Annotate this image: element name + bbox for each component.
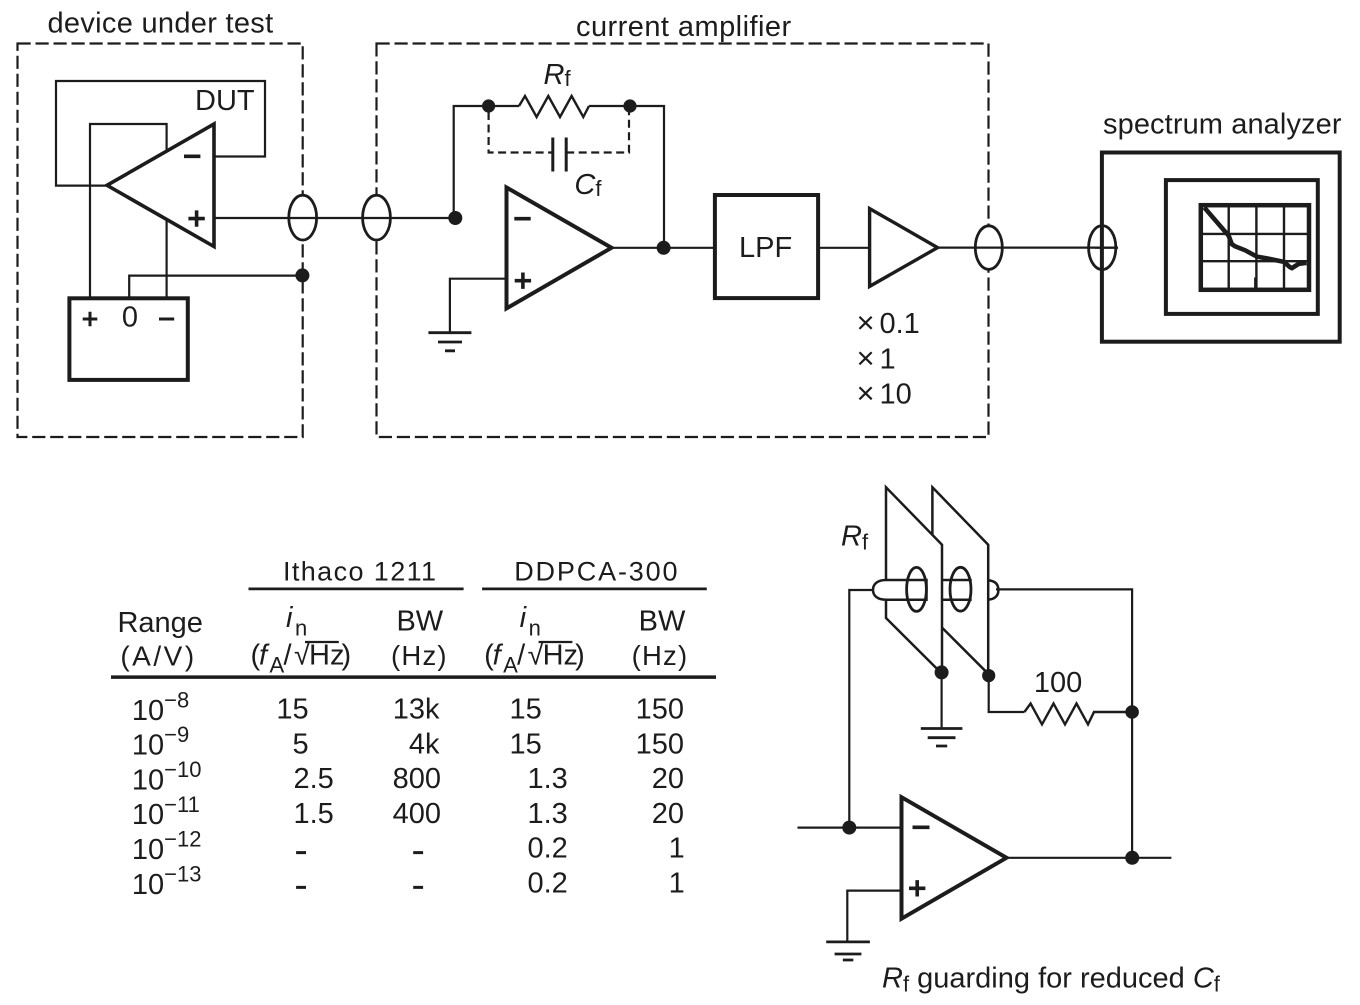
svg-text:DUT: DUT bbox=[195, 85, 255, 117]
node: output dot bbox=[1125, 851, 1139, 865]
noise curve on screen bbox=[1204, 208, 1306, 269]
resistor Rf body left segment bbox=[873, 580, 927, 600]
screen grid verticals bbox=[1229, 205, 1284, 290]
U3 non-inverting input label bbox=[909, 880, 925, 896]
ground symbol (U3 +input) bbox=[826, 942, 870, 960]
wire: plate1 to ground bbox=[940, 672, 942, 727]
dash cells rows 5-6 bbox=[296, 853, 423, 888]
svg-text:4k: 4k bbox=[409, 728, 440, 760]
op-amp U2 (current amplifier) bbox=[507, 188, 612, 309]
DUT enclosure dashed box bbox=[18, 44, 303, 438]
svg-text:×: × bbox=[857, 375, 875, 410]
svg-text:150: 150 bbox=[636, 728, 684, 760]
wire: U2 output to LPF bbox=[612, 247, 715, 249]
screen grid horizontals bbox=[1201, 234, 1309, 261]
svg-text:A: A bbox=[503, 653, 518, 678]
guard hole ellipse (rear plate) bbox=[950, 567, 971, 611]
wire: Rf right lead to output bbox=[996, 589, 1132, 857]
node: inverting input dot bbox=[842, 821, 856, 835]
guard hole ellipse (front plate) bbox=[907, 567, 927, 611]
svg-text:Hz: Hz bbox=[309, 639, 344, 671]
svg-text:/: / bbox=[284, 639, 293, 671]
connector ellipse on current amplifier right edge bbox=[975, 226, 1002, 270]
svg-text:1.3: 1.3 bbox=[527, 798, 567, 830]
wire: non-inverting input to ground bbox=[847, 891, 901, 942]
spectrum analyzer inner box bbox=[1166, 180, 1318, 314]
rule under Ithaco 1211 bbox=[249, 588, 464, 591]
op-amp U1 (DUT, pointing left) bbox=[107, 124, 214, 247]
svg-text:(Hz): (Hz) bbox=[391, 640, 448, 671]
resistor Rf body middle segment bbox=[943, 580, 972, 600]
node: output junction dot bbox=[657, 241, 671, 255]
current amplifier dashed box bbox=[377, 44, 989, 438]
svg-text:): ) bbox=[342, 639, 352, 671]
svg-text:0.2: 0.2 bbox=[527, 868, 567, 900]
table header rule bbox=[111, 675, 716, 679]
svg-text:1.5: 1.5 bbox=[293, 798, 333, 830]
node: resistor/output junction dot bbox=[1125, 705, 1139, 719]
svg-text:15: 15 bbox=[276, 694, 308, 726]
wire: LPF to gain amp bbox=[818, 247, 870, 249]
connector ellipse on spectrum analyzer bbox=[1089, 226, 1116, 270]
svg-text:2.5: 2.5 bbox=[293, 763, 333, 795]
svg-text:1.3: 1.3 bbox=[527, 763, 567, 795]
svg-text:DDPCA-300: DDPCA-300 bbox=[514, 556, 679, 586]
rule under DDPCA-300 bbox=[482, 588, 707, 591]
svg-text:Ithaco 1211: Ithaco 1211 bbox=[283, 556, 438, 586]
wire: plate2 to 100 resistor bbox=[989, 676, 1025, 712]
svg-text:BW: BW bbox=[639, 606, 686, 638]
svg-text:0.1: 0.1 bbox=[880, 308, 920, 340]
svg-text:LPF: LPF bbox=[739, 232, 792, 264]
guard plate 1 (front) bbox=[886, 487, 942, 674]
svg-text:device under test: device under test bbox=[48, 8, 274, 40]
svg-text:current amplifier: current amplifier bbox=[576, 11, 792, 43]
wire stub inside spectrum ellipse (redrawn over) bbox=[1095, 247, 1118, 249]
gain amplifier triangle bbox=[870, 209, 938, 287]
U1 inverting input label bbox=[184, 155, 200, 159]
wire: gain amp to spectrum analyzer bbox=[938, 247, 1118, 249]
battery box bbox=[69, 298, 187, 380]
battery - terminal label bbox=[159, 318, 174, 321]
svg-text:10: 10 bbox=[880, 378, 912, 410]
U1 non-inverting input label bbox=[188, 210, 204, 226]
capacitor Cf dashed branch right bbox=[566, 112, 629, 153]
wire: feedback up from summing node bbox=[454, 106, 519, 218]
wire: U3 output bbox=[1007, 857, 1172, 859]
svg-text:20: 20 bbox=[652, 798, 684, 830]
svg-text:A: A bbox=[270, 653, 285, 678]
svg-text:Rf guarding for reduced Cf: Rf guarding for reduced Cf bbox=[882, 963, 1221, 997]
svg-text:×: × bbox=[857, 340, 875, 375]
node: plate2 dot bbox=[982, 669, 995, 682]
svg-text:√: √ bbox=[528, 639, 544, 671]
wire: DUT output to current amplifier input bbox=[214, 217, 455, 219]
wire: battery supply rectangle bbox=[90, 124, 167, 298]
capacitor Cf plates bbox=[553, 138, 566, 172]
svg-text:100: 100 bbox=[1034, 667, 1082, 699]
wire: DUT feedback loop (output to inverting input) bbox=[56, 81, 265, 186]
wire: resistor to output node bbox=[589, 106, 664, 248]
svg-text:Hz: Hz bbox=[543, 639, 578, 671]
svg-text:): ) bbox=[575, 639, 585, 671]
capacitor Cf dashed branch left bbox=[489, 112, 553, 153]
spectrum analyzer outer box bbox=[1102, 153, 1340, 342]
wire: non-inverting input to ground bbox=[450, 279, 507, 332]
resistor 100 bbox=[1024, 704, 1125, 725]
svg-text:5: 5 bbox=[293, 728, 309, 760]
U2 inverting input label bbox=[514, 217, 530, 221]
U2 non-inverting input label bbox=[515, 273, 531, 289]
svg-text:15: 15 bbox=[510, 728, 542, 760]
svg-text:Range: Range bbox=[117, 607, 202, 639]
svg-text:(A/V): (A/V) bbox=[120, 640, 196, 671]
connector ellipse on current amplifier box edge bbox=[363, 195, 391, 240]
node: feedback right dot bbox=[623, 99, 636, 112]
svg-text:15: 15 bbox=[510, 694, 542, 726]
U3 inverting input label bbox=[913, 825, 930, 829]
sqrt vinculum Ithaco bbox=[305, 641, 339, 643]
svg-text:√: √ bbox=[294, 639, 310, 671]
LPF box bbox=[715, 195, 818, 298]
node: summing junction dot bbox=[448, 211, 462, 225]
svg-text:400: 400 bbox=[393, 798, 441, 830]
svg-text:BW: BW bbox=[396, 606, 443, 638]
ground symbol (U2 +input) bbox=[428, 333, 471, 351]
node: shield junction dot bbox=[295, 268, 309, 282]
svg-text:n: n bbox=[529, 616, 541, 641]
svg-text:(Hz): (Hz) bbox=[632, 640, 689, 671]
resistor Rf bbox=[519, 96, 589, 117]
node: feedback left dot bbox=[482, 99, 495, 112]
svg-text:150: 150 bbox=[636, 694, 684, 726]
battery + terminal label bbox=[83, 312, 98, 327]
battery 0 tap wire to shield bbox=[129, 276, 302, 299]
wire: Rf left lead down to inverting input bbox=[849, 590, 873, 828]
connector ellipse on DUT box edge bbox=[289, 195, 317, 240]
node: plate1 dot bbox=[935, 665, 949, 679]
curve spike bbox=[1254, 278, 1257, 290]
guard plate 2 (rear) bbox=[932, 487, 988, 674]
svg-text:spectrum analyzer: spectrum analyzer bbox=[1103, 109, 1342, 141]
svg-text:/: / bbox=[517, 639, 526, 671]
wire: inverting input bbox=[798, 826, 902, 828]
svg-text:1: 1 bbox=[880, 343, 896, 375]
svg-text:×: × bbox=[857, 305, 875, 340]
op-amp U3 (guard circuit) bbox=[902, 797, 1007, 919]
svg-text:0.2: 0.2 bbox=[527, 833, 567, 865]
svg-text:13k: 13k bbox=[393, 694, 440, 726]
svg-text:20: 20 bbox=[652, 763, 684, 795]
svg-text:800: 800 bbox=[393, 763, 441, 795]
svg-text:n: n bbox=[295, 616, 307, 641]
sqrt vinculum DDPCA bbox=[539, 641, 573, 643]
svg-text:1: 1 bbox=[669, 868, 685, 900]
ground symbol (plate1) bbox=[921, 729, 963, 747]
resistor Rf body right cap bbox=[988, 580, 998, 599]
screen border bbox=[1201, 205, 1309, 290]
svg-text:0: 0 bbox=[122, 301, 138, 333]
svg-text:1: 1 bbox=[669, 833, 685, 865]
